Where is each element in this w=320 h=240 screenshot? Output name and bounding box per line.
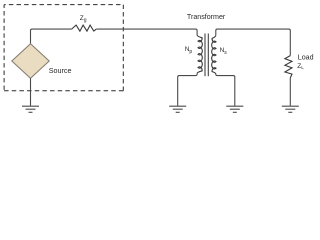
svg-text:ZL: ZL <box>297 63 304 70</box>
wire: source bottom to ground <box>30 78 32 105</box>
secondary bottom lead to ground <box>216 74 235 106</box>
transformer core lines <box>204 34 206 77</box>
ground (load) <box>282 106 299 112</box>
svg-text:Ns: Ns <box>220 47 228 56</box>
ground (source) <box>22 106 39 112</box>
svg-text:Zg: Zg <box>80 15 87 24</box>
secondary top lead <box>216 29 290 55</box>
svg-text:Load: Load <box>298 53 314 61</box>
wire: load bottom to ground <box>289 78 291 106</box>
wire: source top vertical + main horizontal to resistor <box>31 29 72 44</box>
dashed source boundary box <box>4 5 123 91</box>
load resistor ZL zigzag (vertical) <box>285 56 292 78</box>
transformer secondary winding Ns (4 scallop loops bulging right) <box>212 35 216 74</box>
transformer primary winding Np (4 scallop loops bulging left) <box>197 35 202 74</box>
source diamond <box>12 44 49 79</box>
svg-text:Transformer: Transformer <box>187 13 226 21</box>
ground (secondary) <box>226 106 243 112</box>
ground (primary) <box>169 106 186 112</box>
resistor Zg zigzag <box>72 25 97 31</box>
wire: resistor to transformer primary <box>96 29 197 35</box>
primary bottom lead to ground <box>178 74 197 106</box>
svg-text:Np: Np <box>185 46 193 55</box>
svg-text:Source: Source <box>49 66 72 75</box>
